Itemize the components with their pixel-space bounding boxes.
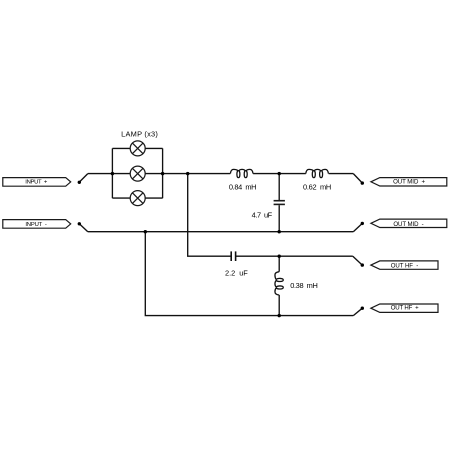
svg-text:LAMP (x3): LAMP (x3) xyxy=(121,129,158,138)
svg-text:4.7 uF: 4.7 uF xyxy=(252,210,273,219)
inductor L3 0.38mH coil xyxy=(275,272,283,295)
pin dot OUT MID+ xyxy=(361,181,364,184)
svg-text:0.84 mH: 0.84 mH xyxy=(229,183,257,192)
wire vertical from rail2 junction down + rail4 to OUT HF+ xyxy=(145,232,353,316)
pin dot OUT HF- xyxy=(361,263,364,266)
junction rail3 / L3 top xyxy=(278,255,281,258)
svg-text:OUT MID -: OUT MID - xyxy=(393,221,423,228)
pin dot OUT HF+ xyxy=(361,307,364,310)
port OUT MID+ xyxy=(371,178,447,186)
port OUT HF+ xyxy=(371,304,438,312)
wire diagonal rail3 to OUT HF- pin xyxy=(353,256,363,265)
wire rail2 INPUT- to OUT MID- xyxy=(88,231,354,233)
junction rail2 / C1 bottom xyxy=(278,230,281,233)
svg-text:2.2 uF: 2.2 uF xyxy=(225,269,248,278)
port INPUT- xyxy=(3,220,71,229)
wire rail1 middle segment lamp to coil1 xyxy=(145,173,230,175)
lamp right bus wire xyxy=(162,148,164,198)
port OUT MID- xyxy=(371,219,447,227)
svg-text:OUT HF -: OUT HF - xyxy=(391,262,419,269)
lamp LA1 top xyxy=(130,141,145,156)
capacitor C1 4.7uF plates xyxy=(274,201,285,205)
lamp left bus wire xyxy=(111,148,113,198)
wire vertical from rail1 junction down + rail3 left segment xyxy=(188,174,231,257)
lamp LA2 middle xyxy=(130,166,145,181)
inductor L3 0.38mH leads xyxy=(278,256,280,272)
pin dot INPUT+ xyxy=(78,181,81,184)
wire diagonal rail2 to OUT MID- pin xyxy=(353,223,362,231)
wire diagonal rail1 to OUT MID+ pin xyxy=(353,174,362,183)
wire rail1 segment coil1 to coil2 xyxy=(253,173,306,175)
port OUT HF- xyxy=(371,261,438,269)
svg-text:0.62 mH: 0.62 mH xyxy=(303,183,331,192)
pin dot INPUT- xyxy=(78,222,81,225)
wire rail1 right segment coil2 to OUT MID+ xyxy=(329,173,354,175)
junction rail1 / C1 top xyxy=(278,172,281,175)
svg-text:INPUT +: INPUT + xyxy=(25,180,48,186)
junction rail2 / rail4 tap xyxy=(144,230,147,233)
svg-text:OUT HF +: OUT HF + xyxy=(391,305,419,312)
lamp bottom branch wires xyxy=(112,197,130,199)
port INPUT+ xyxy=(3,178,71,187)
wire rail1 left segment from INPUT+ to lamp left bus xyxy=(88,173,130,175)
lamp LA3 bottom xyxy=(130,191,145,206)
junction rail1 / lamp right bus xyxy=(161,172,164,175)
inductor L2 0.62mH coil xyxy=(306,169,329,177)
junction rail4 / L3 bottom xyxy=(278,314,281,317)
capacitor C2 2.2uF plates xyxy=(230,251,232,261)
pin dot OUT MID- xyxy=(361,222,364,225)
lamp top branch wires xyxy=(112,147,130,149)
wire rail3 right segment to OUT HF- xyxy=(236,255,353,257)
inductor L1 0.84mH coil xyxy=(230,169,253,177)
junction rail1 / lamp left bus xyxy=(111,172,114,175)
wire diagonal INPUT+ pin to rail1 xyxy=(79,174,88,183)
svg-text:0.38 mH: 0.38 mH xyxy=(290,281,318,290)
junction rail1 / HF tap xyxy=(186,172,189,175)
svg-text:INPUT -: INPUT - xyxy=(25,222,47,228)
wire diagonal INPUT- pin to rail2 xyxy=(79,224,88,232)
capacitor C1 4.7uF leads xyxy=(278,174,280,200)
svg-text:OUT MID +: OUT MID + xyxy=(393,179,425,186)
wire diagonal rail4 to OUT HF+ pin xyxy=(353,308,362,315)
